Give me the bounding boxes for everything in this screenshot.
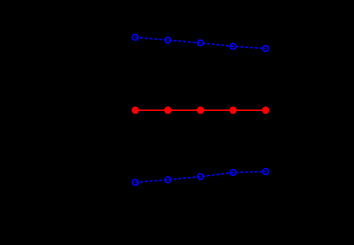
series 2 (middle, red solid) line [135, 109, 265, 111]
series 2 marker 1 [132, 107, 139, 114]
series 1 marker 1 [132, 34, 138, 40]
series 3 marker 5 [263, 169, 269, 175]
series 1 marker 3 [198, 40, 204, 46]
series 1 marker 2 [165, 37, 171, 43]
series 3 (bottom, blue dashed) line [135, 172, 265, 183]
series 1 marker 5 [263, 46, 269, 52]
series 3 marker 4 [230, 170, 236, 176]
series 2 marker 5 [262, 107, 269, 114]
series 2 marker 2 [164, 107, 171, 114]
series 3 marker 3 [198, 174, 204, 180]
series 3 marker 2 [165, 177, 171, 183]
series 3 marker 1 [132, 180, 138, 186]
series 1 marker 4 [230, 44, 236, 50]
series 2 marker 3 [197, 107, 204, 114]
series 1 (top, blue dashed) line [135, 37, 265, 48]
series 2 marker 4 [229, 107, 236, 114]
